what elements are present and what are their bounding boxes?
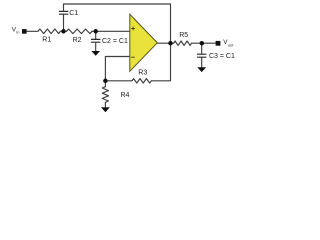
node B junction bbox=[93, 29, 98, 34]
wire node C to R3 bbox=[105, 80, 132, 82]
node output junction bbox=[168, 41, 173, 46]
capacitor C1 bbox=[59, 11, 67, 14]
ground (C3) bbox=[197, 67, 206, 72]
wire top feedback rail down to output node bbox=[64, 4, 171, 43]
capacitor C2 bbox=[92, 39, 100, 42]
terminal Vin bbox=[22, 29, 27, 34]
ground (R4) bbox=[101, 107, 110, 112]
wire op-amp output to R5 bbox=[157, 42, 174, 44]
wire R5 to output terminal bbox=[192, 42, 216, 44]
label Vin bbox=[12, 27, 20, 35]
svg-text:out: out bbox=[228, 42, 234, 47]
svg-text:R5: R5 bbox=[179, 32, 188, 39]
label Vout bbox=[223, 39, 234, 47]
op-amp U1 bbox=[130, 14, 158, 71]
wire C1 up to top feedback rail bbox=[63, 4, 65, 11]
capacitor C3 bbox=[198, 54, 206, 57]
wire node C down to R4 bbox=[104, 81, 106, 87]
resistor R4 bbox=[102, 87, 108, 103]
node C junction bbox=[103, 79, 108, 84]
svg-text:C1: C1 bbox=[69, 10, 78, 17]
wire node A up to C1 bbox=[63, 14, 65, 31]
svg-text:R2: R2 bbox=[73, 37, 82, 44]
svg-text:in: in bbox=[16, 30, 19, 35]
resistor R3 bbox=[132, 79, 151, 83]
wire node B down to C2 bbox=[95, 31, 97, 39]
wire C3 to ground bbox=[201, 57, 203, 67]
node A junction bbox=[61, 29, 66, 34]
node D junction bbox=[200, 41, 205, 46]
wire Vin terminal to R1 bbox=[27, 30, 38, 32]
ground (C2) bbox=[91, 51, 100, 56]
wire R4 to ground bbox=[104, 102, 106, 107]
terminal Vout bbox=[216, 41, 221, 46]
wire R1 to node A bbox=[61, 30, 67, 32]
wire R3 up to output node bbox=[151, 43, 170, 81]
wire op-amp inverting input to node C bbox=[105, 57, 129, 81]
svg-text:R4: R4 bbox=[121, 92, 130, 99]
wire R2 to op-amp noninverting input bbox=[92, 30, 130, 32]
resistor R2 bbox=[67, 29, 93, 34]
wire C2 to ground bbox=[95, 42, 97, 51]
resistor R1 bbox=[38, 29, 61, 34]
svg-text:R3: R3 bbox=[138, 70, 147, 77]
wire node D down to C3 bbox=[201, 43, 203, 54]
svg-text:R1: R1 bbox=[42, 36, 51, 43]
svg-text:C3 = C1: C3 = C1 bbox=[209, 53, 235, 60]
svg-text:C2 = C1: C2 = C1 bbox=[102, 38, 128, 45]
resistor R5 bbox=[174, 41, 192, 45]
